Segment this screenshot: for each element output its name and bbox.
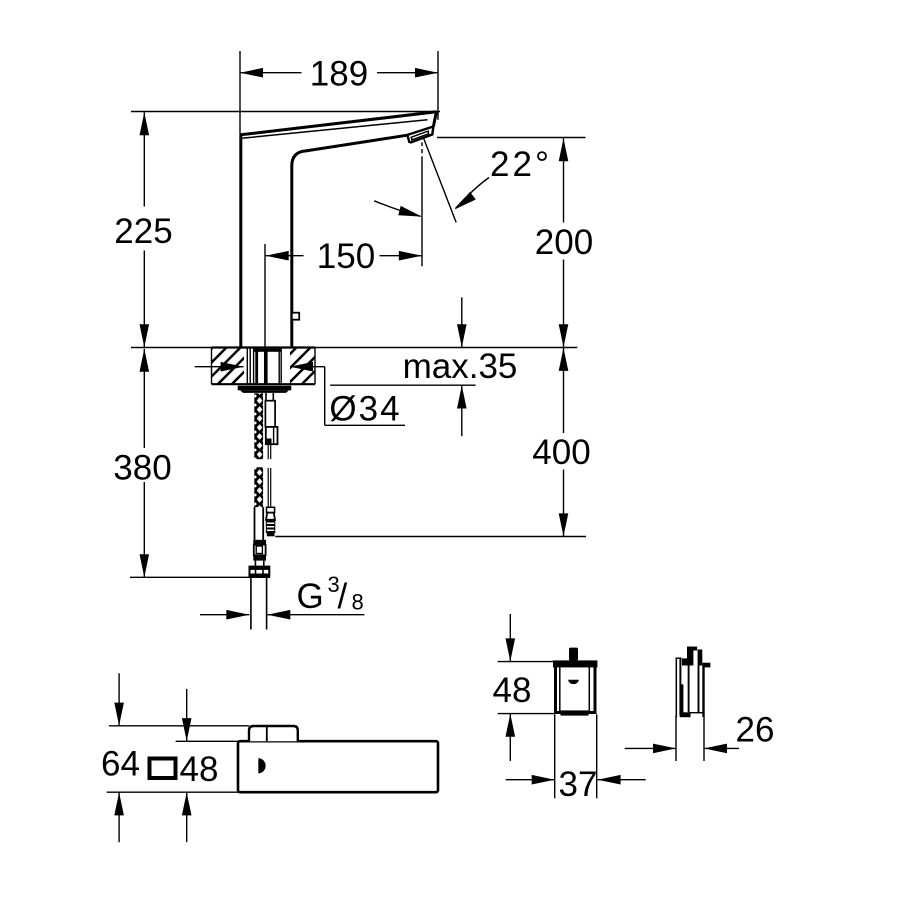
svg-text:G: G bbox=[297, 577, 324, 616]
svg-text:3: 3 bbox=[328, 572, 340, 597]
svg-text:22°: 22° bbox=[490, 145, 552, 184]
svg-text:48: 48 bbox=[493, 671, 532, 710]
svg-text:400: 400 bbox=[532, 433, 590, 472]
svg-text:48: 48 bbox=[180, 750, 219, 789]
svg-text:max.35: max.35 bbox=[403, 347, 518, 386]
svg-text:Ø34: Ø34 bbox=[329, 390, 401, 429]
svg-text:225: 225 bbox=[114, 212, 172, 251]
svg-text:200: 200 bbox=[535, 223, 593, 262]
svg-text:380: 380 bbox=[113, 449, 171, 488]
svg-text:189: 189 bbox=[310, 54, 368, 93]
svg-text:150: 150 bbox=[317, 237, 375, 276]
svg-text:37: 37 bbox=[559, 765, 598, 804]
svg-text:26: 26 bbox=[736, 711, 775, 750]
svg-text:64: 64 bbox=[101, 745, 140, 784]
svg-text:8: 8 bbox=[352, 590, 364, 615]
